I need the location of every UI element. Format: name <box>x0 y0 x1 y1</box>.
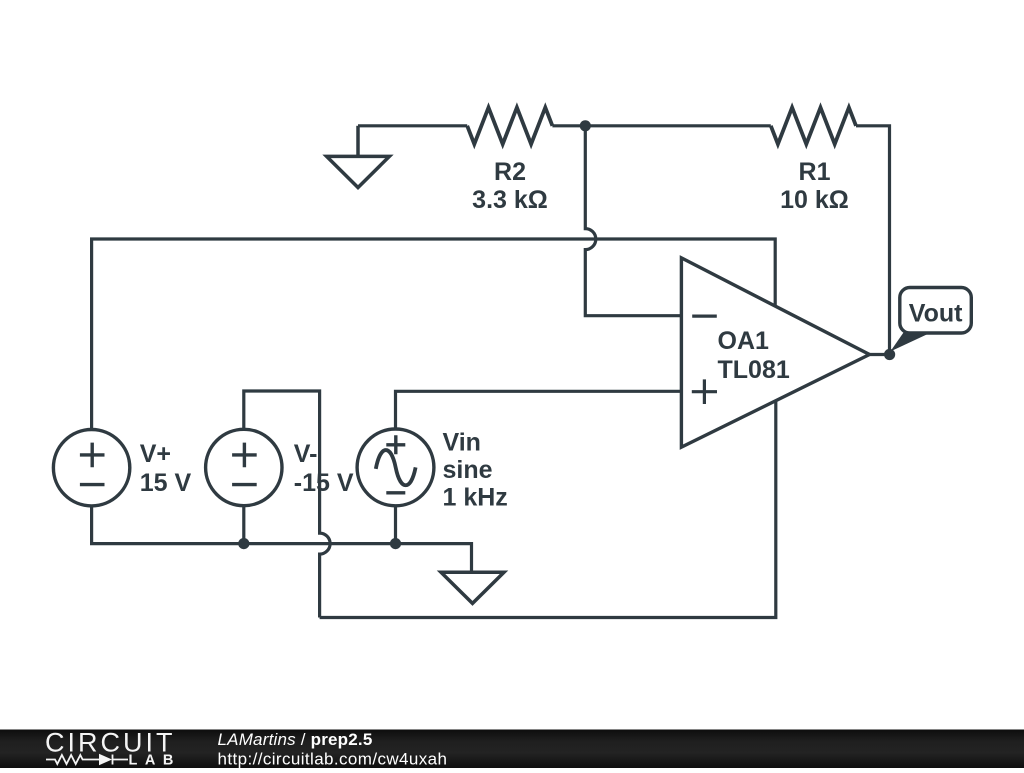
svg-text:10 kΩ: 10 kΩ <box>780 186 849 214</box>
wire V- source top up over to x=319.6 and down (hop over ground wire) to V- rail <box>244 391 330 618</box>
wire Vin top to op-amp non-inverting input <box>396 391 682 429</box>
op-amp OA1 TL081 <box>681 258 869 447</box>
footer text line 2: url <box>218 749 448 768</box>
svg-text:Vout: Vout <box>909 299 963 327</box>
svg-text:1 kHz: 1 kHz <box>443 484 508 512</box>
voltage source V+ <box>53 430 129 506</box>
footer text line 1: LAMartins / prep2.5 <box>218 730 373 749</box>
label Vin sine 1 kHz <box>443 428 508 511</box>
op-amp inverting input minus symbol <box>692 315 717 318</box>
wire node A down (hop over V+ rail) to op-amp inverting input <box>585 126 681 316</box>
wire V- bottom stub <box>242 506 245 544</box>
CircuitLab logo resistor-diode glyph <box>46 754 128 765</box>
svg-text:15 V: 15 V <box>140 469 192 497</box>
ground wire: V+ bottom, V- bottom, Vin bottom to ground G2 <box>92 506 472 572</box>
label OA1 TL081 <box>718 327 790 384</box>
Vout flag tail <box>890 333 931 352</box>
svg-text:LAMartins / prep2.5: LAMartins / prep2.5 <box>218 730 373 749</box>
wire op-amp output to node Vout <box>870 353 890 356</box>
voltage source V- <box>206 429 282 505</box>
svg-text:-15 V: -15 V <box>294 469 354 497</box>
svg-text:sine: sine <box>443 456 493 484</box>
wire from R2 to node A and on to R1 <box>552 124 770 127</box>
svg-text:3.3 kΩ: 3.3 kΩ <box>472 186 548 214</box>
wire from ground G1 to R2 left lead <box>358 124 467 127</box>
junction dot at V- bottom <box>238 538 249 549</box>
junction dot at Vin bottom <box>390 538 401 549</box>
wire V+ rail: V+ source top to op-amp V+ pin <box>92 239 776 429</box>
ground G2 (below Vin) <box>441 572 504 603</box>
svg-text:V+: V+ <box>140 440 171 468</box>
label V+ 15 V <box>140 440 192 497</box>
wire R1 right lead down to output node <box>856 126 890 355</box>
label R2 value 3.3 kOhm <box>472 158 548 214</box>
output node junction dot <box>884 349 895 360</box>
svg-text:V-: V- <box>294 440 318 468</box>
svg-text:TL081: TL081 <box>718 356 790 384</box>
wire V- rail: bottom rail to op-amp V- pin <box>320 401 776 617</box>
wire Vin bottom stub <box>394 506 397 544</box>
Vout flag bubble <box>900 288 972 334</box>
svg-text:R2: R2 <box>494 158 526 186</box>
node A junction dot (between R2 and R1) <box>580 120 591 131</box>
CircuitLab logo wordmark CIRCUIT <box>45 728 176 758</box>
svg-text:R1: R1 <box>799 158 831 186</box>
CircuitLab logo wordmark LAB <box>129 752 181 768</box>
resistor R1 <box>771 108 856 145</box>
op-amp non-inverting input plus symbol <box>692 379 717 404</box>
label V- -15 V <box>294 440 354 497</box>
resistor R2 <box>467 108 552 145</box>
svg-text:Vin: Vin <box>443 428 481 456</box>
svg-text:OA1: OA1 <box>718 327 770 355</box>
label Vout <box>909 299 963 327</box>
svg-text:http://circuitlab.com/cw4uxah: http://circuitlab.com/cw4uxah <box>218 749 448 768</box>
footer bar <box>0 730 1024 769</box>
svg-text:LAB: LAB <box>129 752 181 768</box>
sine source Vin <box>357 429 434 506</box>
ground G1 (top left) <box>327 126 390 188</box>
label R1 value 10 kOhm <box>780 158 849 214</box>
